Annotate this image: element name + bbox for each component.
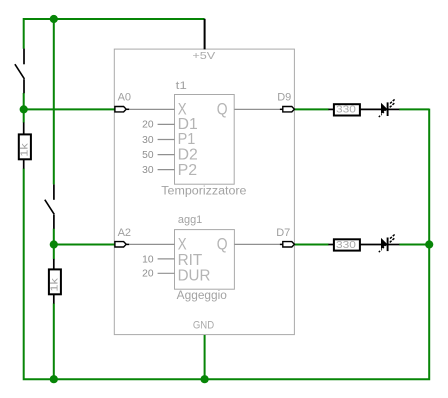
wire pin A2 to agg1 X — [129, 243, 174, 245]
svg-text:Q: Q — [217, 101, 228, 119]
svg-text:agg1: agg1 — [178, 214, 202, 226]
t1 pin stub P1 — [158, 139, 175, 141]
svg-text:Q: Q — [217, 235, 228, 253]
svg-text:1k: 1k — [50, 277, 61, 292]
svg-text:Aggeggio: Aggeggio — [177, 290, 227, 302]
resistor R4 330 — [328, 239, 381, 251]
wire node to pin A2 — [54, 244, 115, 246]
svg-text:P2: P2 — [178, 162, 198, 179]
svg-text:RIT: RIT — [178, 252, 203, 269]
pin A0 — [115, 107, 129, 112]
wire GND lead to bottom rail — [204, 335, 206, 380]
inner box agg1 (Aggeggio) — [175, 230, 235, 290]
wire t1 Q to pin D9 — [234, 108, 280, 110]
wire D9 to resistor R3 — [295, 108, 329, 110]
big box U1 (microcontroller outline) — [114, 49, 294, 335]
switch S1 — [15, 49, 25, 94]
svg-text:D7: D7 — [276, 227, 290, 239]
svg-text:330: 330 — [336, 239, 356, 251]
svg-text:A2: A2 — [118, 227, 131, 239]
switch S2 — [45, 184, 55, 228]
svg-text:330: 330 — [336, 104, 356, 116]
svg-text:50: 50 — [142, 150, 154, 161]
wire node to pin A0 — [23, 108, 115, 110]
wire pin A0 to t1 X — [129, 108, 174, 110]
wire top rail +5V — [24, 19, 205, 49]
t1 pin stub P2 — [158, 169, 175, 171]
wire mid vertical (switch S2 to node A2 to resistor R2) — [53, 229, 55, 260]
svg-text:X: X — [178, 235, 187, 253]
t1 pin stub D2 — [158, 154, 175, 156]
pin D7 — [280, 242, 295, 247]
svg-text:+5V: +5V — [192, 50, 215, 62]
svg-text:t1: t1 — [176, 80, 187, 92]
wire LED1 to right rail — [399, 108, 429, 110]
agg1 pin stub DUR — [158, 272, 175, 274]
junction bottom rail R2 — [50, 375, 58, 383]
junction top — [50, 15, 58, 23]
svg-text:20: 20 — [142, 120, 154, 131]
svg-text:GND: GND — [193, 319, 214, 331]
svg-text:Temporizzatore: Temporizzatore — [161, 186, 246, 198]
wire left low + bottom rail + right rail — [24, 109, 430, 380]
junction right rail LED2 — [425, 240, 433, 248]
pin D9 — [280, 107, 295, 112]
junction bottom rail GND — [201, 375, 209, 383]
resistor R1 1k — [19, 122, 31, 168]
junction node A2 — [50, 240, 58, 248]
wire LED2 to right rail — [399, 244, 429, 246]
svg-text:1k: 1k — [20, 142, 31, 157]
pin A2 — [115, 242, 129, 247]
junction node A0 — [20, 105, 28, 113]
LED D1 — [379, 99, 400, 117]
resistor R3 330 — [328, 104, 381, 116]
svg-text:10: 10 — [142, 254, 154, 265]
+5V pin lead — [204, 19, 206, 50]
wire mid vertical top (junction to switch S2) — [53, 18, 55, 184]
t1 pin stub D1 — [158, 123, 175, 125]
wire D7 to resistor R4 — [295, 244, 329, 246]
wire mid vertical low (resistor R2 to bottom rail) — [53, 303, 55, 380]
LED D2 — [379, 235, 400, 253]
agg1 pin stub RIT — [158, 258, 175, 260]
svg-text:DUR: DUR — [178, 267, 211, 284]
wire left mid (switch S1 to node, to resistor R1) — [23, 93, 25, 123]
svg-text:30: 30 — [142, 135, 154, 146]
wire agg1 Q to pin D7 — [234, 243, 280, 245]
svg-text:30: 30 — [142, 165, 154, 176]
svg-text:D9: D9 — [277, 92, 291, 104]
svg-text:20: 20 — [142, 269, 154, 280]
svg-text:A0: A0 — [118, 92, 131, 104]
inner box t1 (Temporizzatore) — [175, 95, 235, 185]
resistor R2 1k — [49, 259, 61, 304]
